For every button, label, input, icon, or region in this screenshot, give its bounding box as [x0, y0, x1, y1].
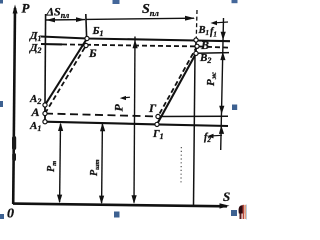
node circle G1 [155, 122, 159, 126]
falling solid line V2-G1 [157, 53, 196, 124]
dimension dS_pl line [46, 17, 85, 22]
f1 label and leader arrow [211, 21, 229, 26]
tick line at B1 [85, 14, 88, 37]
rising dashed line A-B [45, 46, 86, 114]
svg-text:Р: Р [112, 104, 126, 112]
dashed tick above V1 [195, 10, 198, 38]
tick line left (through A2) [44, 14, 47, 104]
left vertical A1-A2 [44, 105, 46, 122]
svg-text:Г: Г [148, 101, 157, 115]
svg-text:0: 0 [7, 207, 14, 222]
svg-text:Р: Р [22, 1, 31, 16]
dimension vertical P_t at x=60 [57, 123, 63, 204]
bottom dashed line A-G [45, 114, 158, 117]
D2 solid stub [41, 43, 62, 46]
blue scan mark top-right [232, 0, 238, 3]
dashed extension right of V [199, 47, 228, 48]
V2 level extension [196, 52, 229, 55]
blue scan mark left-middle [0, 101, 3, 107]
S axis [13, 203, 230, 208]
svg-text:Б: Б [88, 46, 97, 60]
D1 line merging into top side B1-V1 and extension [41, 37, 230, 42]
node circle V1 [194, 38, 198, 42]
svg-text:S: S [223, 189, 230, 204]
node circle A [43, 111, 47, 115]
node circle V [195, 44, 199, 48]
G level extension right [158, 115, 228, 117]
blue scan mark right-middle [232, 105, 237, 111]
svg-text:А: А [31, 105, 40, 119]
blue scan mark bottom-right [231, 210, 237, 216]
node circle B [84, 43, 88, 47]
red paragraph scan mark bottom-right corner [239, 205, 247, 220]
small leader arrow for center P [120, 96, 130, 100]
node circle G [156, 114, 160, 118]
bottom solid line A1-G1 and extension [45, 122, 228, 126]
P axis [13, 5, 18, 205]
dashed line D2-B-V [62, 44, 195, 46]
blue scan mark bottom-center [114, 212, 120, 218]
f2 label and leader arrow [207, 134, 222, 139]
node circle A1 [43, 120, 47, 124]
blue scan mark bottom-left [0, 214, 4, 219]
faint dotted vertical [180, 147, 182, 184]
vertical line from V2 to axis [194, 53, 196, 205]
svg-text:В: В [200, 38, 209, 52]
blue scan mark top-left [0, 0, 3, 4]
right dimension vertical (f1, P_zh, f2) [219, 18, 226, 150]
blue scan mark top-center [113, 0, 120, 4]
node circle V2 [194, 51, 198, 55]
rising solid line A2-B1 [45, 39, 87, 106]
node circle B1 [85, 36, 89, 40]
right vertical V1-V2 [195, 40, 197, 53]
dimension vertical P_sht at x=102 [99, 123, 105, 205]
node circle A2 [43, 103, 47, 107]
axis scan lumps [12, 136, 16, 150]
dimension vertical at x=134 (center P) [132, 37, 138, 204]
dimension S_pl line [86, 16, 195, 21]
falling dashed line V-G [158, 46, 197, 116]
